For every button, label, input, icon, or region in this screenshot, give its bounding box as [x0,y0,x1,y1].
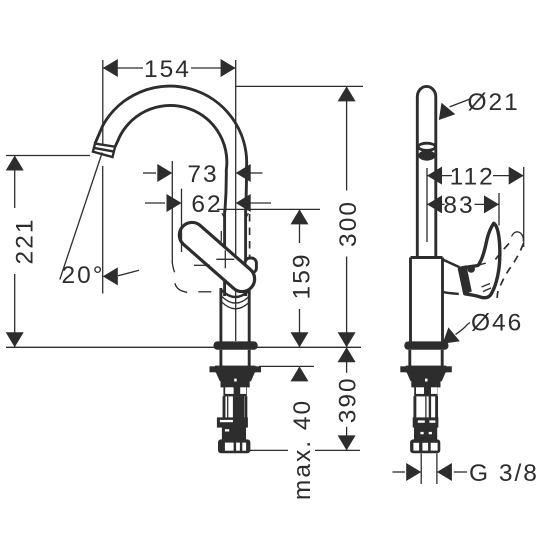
svg-text:62: 62 [191,191,222,218]
svg-text:154: 154 [144,56,191,83]
svg-text:300: 300 [335,200,362,247]
svg-text:112: 112 [450,163,495,190]
svg-text:390: 390 [334,376,361,423]
svg-text:20°: 20° [61,262,104,289]
svg-text:159: 159 [288,253,315,300]
svg-text:max. 40: max. 40 [289,399,316,500]
svg-text:73: 73 [187,161,218,188]
svg-text:Ø21: Ø21 [468,89,520,116]
svg-text:G 3/8: G 3/8 [469,460,539,487]
svg-text:Ø46: Ø46 [471,310,523,337]
svg-text:83: 83 [443,192,474,219]
svg-text:221: 221 [11,218,38,265]
